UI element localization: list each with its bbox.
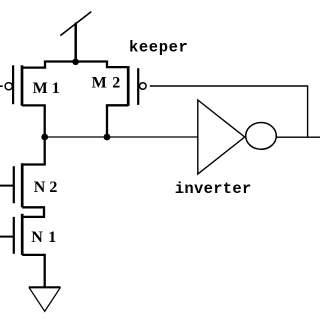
wire: M1 drain to output node — [22, 105, 45, 137]
wire: inverter output — [276, 136, 320, 138]
power supply symbol — [60, 12, 91, 62]
transistor M2 — [92, 66, 147, 106]
transistor M1 — [0, 65, 64, 105]
svg-text:N2: N2 — [34, 179, 62, 196]
svg-text:keeper: keeper — [129, 38, 188, 56]
svg-text:M1: M1 — [33, 80, 64, 97]
junction: output node right — [104, 134, 111, 141]
wire: M2 drain to output node — [107, 105, 128, 137]
transistor N1 — [0, 214, 62, 255]
inverter U1 — [198, 100, 276, 174]
wire: supply rail with M1/M2 source stubs — [22, 62, 128, 68]
transistor N2 — [0, 163, 61, 207]
svg-text:N1: N1 — [31, 229, 62, 246]
wire: N2 source to N1 drain — [22, 207, 44, 217]
junction: output node left — [41, 134, 48, 141]
junction: supply node — [72, 59, 79, 66]
wire: output node down to N2 drain — [22, 137, 45, 165]
wire: feedback to keeper gate — [150, 86, 308, 137]
ground — [29, 287, 61, 311]
svg-text:M2: M2 — [92, 75, 126, 92]
wire: output node to inverter input — [45, 136, 198, 138]
wire: N1 source to ground — [22, 255, 45, 287]
svg-text:inverter: inverter — [175, 180, 252, 198]
